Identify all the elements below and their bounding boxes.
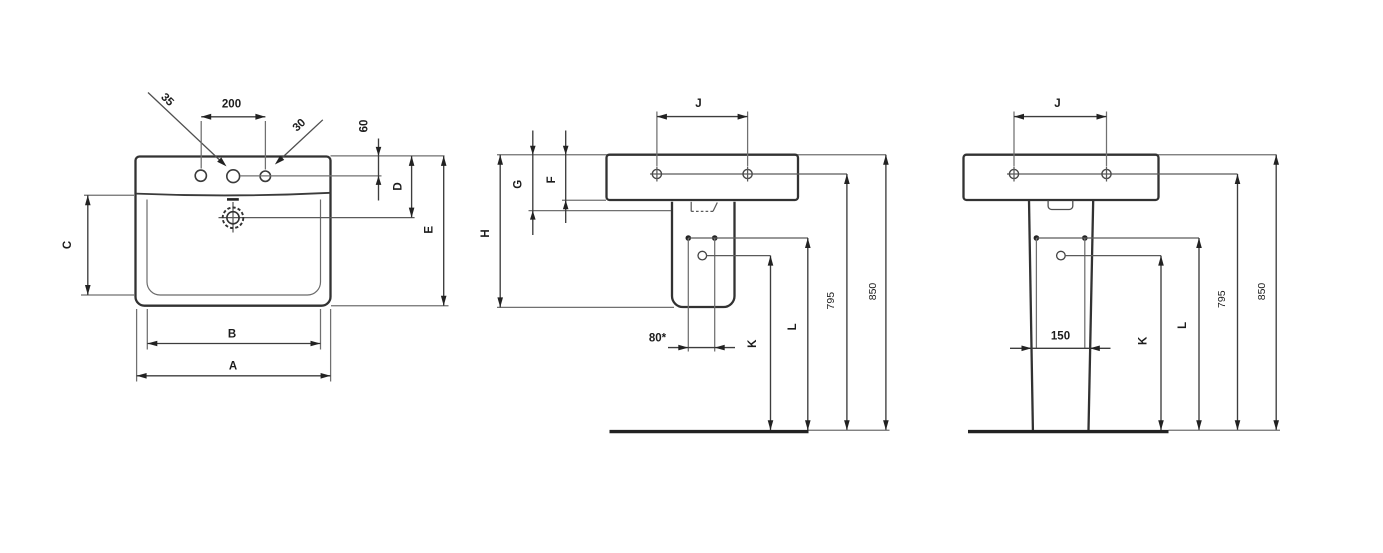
dim D line	[411, 156, 413, 218]
top level extension line	[1158, 154, 1277, 156]
bolt extension lines down	[1036, 238, 1084, 348]
dim 60 line	[378, 139, 380, 201]
basin side body	[607, 155, 799, 200]
dim A extension lines	[137, 309, 331, 382]
semi-pedestal body	[672, 202, 735, 307]
dim 80* line	[668, 347, 735, 349]
dim E line	[443, 156, 445, 306]
overflow horizontal crosshair / extension to D	[219, 217, 415, 219]
overflow hole inner	[227, 212, 239, 224]
svg-text:K: K	[747, 339, 759, 348]
dim J arrows	[1014, 114, 1024, 120]
dim 850 line	[885, 155, 887, 431]
faucet hole left	[195, 170, 206, 181]
dim C extension lines	[81, 195, 135, 295]
H bottom extension line	[497, 306, 674, 308]
mounting holes centerline	[1007, 173, 1238, 175]
svg-text:K: K	[1138, 336, 1150, 345]
dim L line	[807, 238, 809, 430]
bolt extension lines down	[688, 238, 714, 352]
mounting hole left	[1009, 169, 1018, 178]
svg-text:150: 150	[1051, 331, 1070, 343]
dim B line	[147, 343, 320, 345]
overflow hole outer dashed ring	[223, 208, 244, 229]
top edge extension right	[331, 155, 445, 157]
dim 795 line	[846, 174, 848, 430]
bolt level line to L	[1036, 237, 1199, 239]
floor line	[610, 430, 809, 433]
svg-text:F: F	[546, 176, 558, 183]
svg-text:G: G	[513, 180, 525, 189]
svg-text:35: 35	[158, 91, 176, 109]
basin ledge line	[136, 193, 331, 196]
leader 30 line	[277, 120, 323, 163]
dim 795 line	[1237, 174, 1239, 430]
dim J line	[657, 116, 748, 118]
basin bottom extension right	[331, 305, 449, 307]
dim B extension lines	[147, 309, 320, 350]
pedestal body	[1029, 200, 1093, 430]
dim J line	[1014, 116, 1107, 118]
dim 850 line	[1275, 155, 1277, 431]
svg-text:850: 850	[1256, 283, 1268, 301]
drain circle	[698, 251, 707, 260]
mounting hole right	[743, 169, 752, 178]
dim G line	[532, 131, 534, 236]
pedestal recess	[1048, 201, 1073, 210]
dim F line	[565, 131, 567, 224]
G bottom reference line	[529, 210, 672, 212]
hole centerline	[240, 175, 382, 177]
bolt dots	[686, 235, 692, 241]
dim 200 line	[201, 116, 265, 118]
basin side body	[964, 155, 1159, 200]
svg-text:C: C	[62, 241, 74, 249]
svg-text:80*: 80*	[649, 333, 667, 345]
svg-text:E: E	[423, 226, 435, 234]
dim K line	[1160, 256, 1162, 431]
svg-text:J: J	[695, 98, 701, 110]
dim A arrows	[137, 373, 147, 379]
dim C line	[87, 195, 89, 295]
dim J extension lines	[657, 112, 748, 167]
drain circle	[1057, 251, 1066, 260]
dim B arrows	[147, 341, 157, 347]
svg-text:B: B	[228, 329, 236, 341]
dim H line	[499, 155, 501, 308]
leader 35 arrowhead	[217, 157, 228, 168]
bolt level line to L	[688, 237, 808, 239]
svg-text:L: L	[1177, 322, 1189, 329]
leader 30 arrowhead	[273, 155, 284, 166]
svg-text:J: J	[1054, 98, 1060, 110]
dim L line	[1198, 238, 1200, 430]
dim 60 arrows	[376, 147, 382, 156]
floor line	[968, 430, 1169, 433]
mounting hole left	[652, 169, 661, 178]
basin outer body	[136, 157, 331, 306]
basin inner bowl	[147, 200, 321, 296]
floor extension thin	[809, 429, 890, 431]
dim J arrows	[657, 114, 667, 120]
dim 80* arrows	[678, 345, 688, 351]
dim 150 arrows	[1022, 346, 1032, 352]
dim J extension lines	[1014, 112, 1107, 167]
dim A line	[137, 375, 331, 377]
dim 200 extension lines	[201, 121, 265, 170]
svg-text:850: 850	[867, 283, 879, 301]
top level extension line	[497, 154, 886, 156]
faucet hole middle	[227, 170, 240, 183]
svg-text:200: 200	[222, 99, 241, 111]
basin bottom extension left	[562, 199, 606, 201]
svg-text:30: 30	[291, 117, 309, 135]
svg-text:60: 60	[359, 120, 371, 133]
dim K line	[770, 256, 772, 431]
dim H arrows	[497, 155, 503, 165]
faucet hole right	[260, 171, 270, 181]
mounting holes centerline	[650, 173, 847, 175]
pedestal recess hidden lines	[690, 202, 692, 212]
drain level line to K	[707, 255, 771, 257]
bolt dots	[1034, 235, 1040, 241]
overflow centre tick	[227, 198, 239, 201]
dim 150 line	[1010, 347, 1111, 349]
mounting hole right	[1102, 169, 1111, 178]
svg-text:L: L	[787, 323, 799, 330]
svg-text:795: 795	[825, 292, 837, 310]
svg-text:795: 795	[1216, 290, 1228, 308]
dim G arrows	[530, 146, 536, 155]
drain level line to K	[1065, 255, 1161, 257]
overflow vertical crosshair	[232, 202, 234, 233]
dim C arrows	[85, 195, 91, 205]
svg-text:A: A	[229, 361, 237, 373]
dim D arrows	[409, 156, 415, 166]
floor extension thin	[1169, 429, 1281, 431]
leader 35 line	[148, 93, 225, 165]
svg-text:D: D	[392, 182, 404, 190]
dim F arrows	[563, 146, 569, 155]
svg-text:H: H	[480, 229, 492, 237]
dim 200 arrows	[201, 114, 211, 120]
dim E arrows	[441, 156, 447, 166]
